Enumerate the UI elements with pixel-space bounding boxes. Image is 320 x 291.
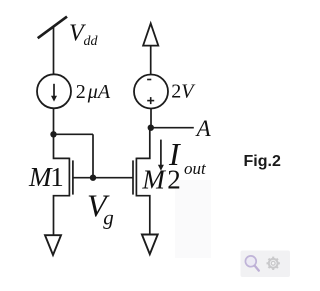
transistor M1: [54, 134, 73, 235]
svg-text:A: A: [195, 116, 212, 141]
Iout arrow: [158, 140, 164, 171]
node A junction dot: [148, 125, 154, 131]
wire node A stub: [151, 127, 194, 129]
ground M1: [45, 235, 61, 255]
wire current source to node X: [53, 108, 55, 134]
node Vg junction dot: [90, 175, 96, 181]
current source I1 arrow: [51, 84, 57, 102]
svg-text:M: M: [28, 162, 53, 192]
Vdd supply stroke: [38, 17, 67, 39]
wire vertical drop to gate node: [92, 134, 94, 177]
wire node X to gate drop: [54, 133, 94, 135]
voltage source plus sign: [147, 97, 154, 104]
node X junction dot: [50, 131, 56, 137]
ground M2: [142, 235, 158, 255]
wire Vdd to current source: [53, 27, 55, 75]
svg-text:2μA: 2μA: [76, 81, 111, 103]
voltage source minus sign: [147, 79, 151, 81]
wire gate bus M1 to M2: [74, 177, 133, 179]
svg-text:out: out: [184, 159, 207, 178]
icon panel background: [241, 251, 291, 278]
svg-text:I: I: [168, 136, 181, 172]
voltage source V1 circle: [134, 75, 168, 109]
svg-text:2V: 2V: [171, 81, 196, 103]
svg-text:g: g: [103, 206, 114, 230]
wire V1 to node A: [150, 109, 152, 128]
faint scroll shadow: [175, 180, 211, 258]
supply arrow top of right branch: [143, 23, 158, 74]
svg-text:Fig.2: Fig.2: [244, 153, 281, 170]
svg-text:dd: dd: [84, 34, 99, 49]
current source I1 circle: [37, 74, 71, 108]
gear icon: [267, 257, 280, 270]
transistor M2: [133, 128, 150, 235]
magnifier icon: [245, 256, 258, 271]
svg-text:1: 1: [50, 162, 64, 192]
svg-text:M: M: [141, 165, 166, 195]
